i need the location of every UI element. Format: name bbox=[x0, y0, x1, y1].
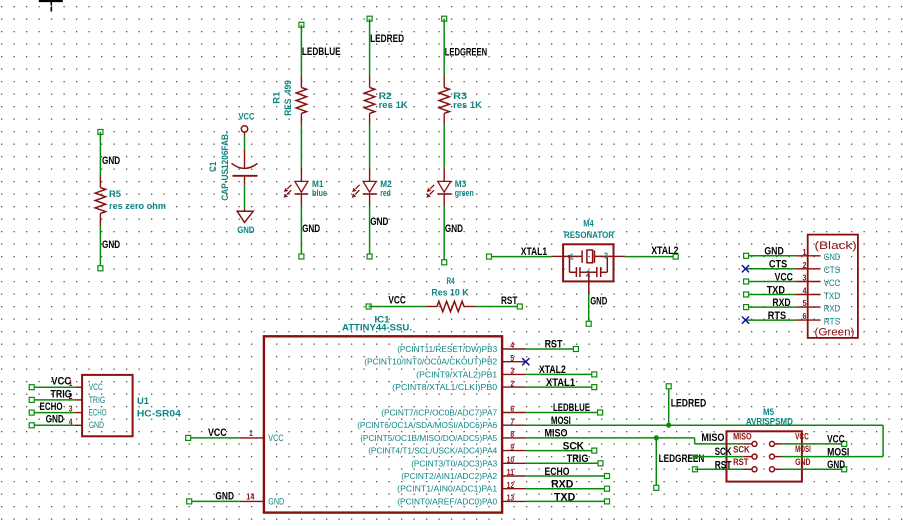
svg-text:LEDGREEN: LEDGREEN bbox=[445, 47, 487, 59]
svg-text:RTS: RTS bbox=[824, 317, 841, 327]
svg-text:VCC: VCC bbox=[795, 432, 809, 442]
svg-text:blue: blue bbox=[312, 188, 327, 198]
svg-text:res zero ohm: res zero ohm bbox=[109, 201, 166, 211]
svg-text:3: 3 bbox=[803, 273, 807, 283]
svg-text:8: 8 bbox=[510, 429, 514, 439]
svg-text:GND: GND bbox=[46, 414, 64, 426]
svg-text:R4: R4 bbox=[447, 276, 456, 286]
svg-text:RST: RST bbox=[501, 295, 518, 307]
svg-text:(Green): (Green) bbox=[815, 327, 855, 339]
svg-text:ATTINY44-SSU.: ATTINY44-SSU. bbox=[342, 323, 412, 333]
svg-text:ECHO: ECHO bbox=[545, 466, 570, 478]
svg-text:(PCINT4/T1/SCL/USCK/ADC4)PA4: (PCINT4/T1/SCL/USCK/ADC4)PA4 bbox=[368, 446, 497, 456]
svg-text:XTAL1: XTAL1 bbox=[521, 246, 547, 258]
svg-text:GND: GND bbox=[268, 497, 284, 507]
svg-text:VCC: VCC bbox=[89, 382, 103, 392]
svg-text:2: 2 bbox=[510, 378, 514, 388]
svg-text:VCC: VCC bbox=[239, 112, 255, 122]
svg-text:TXD: TXD bbox=[767, 284, 786, 296]
svg-text:res 1K: res 1K bbox=[379, 100, 408, 110]
svg-text:7: 7 bbox=[510, 416, 514, 426]
svg-text:GND: GND bbox=[827, 459, 845, 471]
svg-text:RES .499: RES .499 bbox=[283, 80, 293, 116]
svg-text:Res 10 K: Res 10 K bbox=[431, 288, 468, 298]
svg-text:ECHO: ECHO bbox=[89, 408, 107, 418]
svg-text:VCC: VCC bbox=[208, 427, 227, 439]
svg-text:VCC: VCC bbox=[51, 376, 71, 388]
svg-text:3: 3 bbox=[510, 366, 514, 376]
svg-text:(PCINT5/OC1B/MISO/DO/ADC5)PA5: (PCINT5/OC1B/MISO/DO/ADC5)PA5 bbox=[360, 433, 497, 443]
svg-text:4: 4 bbox=[69, 416, 73, 426]
svg-text:14: 14 bbox=[246, 492, 255, 502]
svg-text:R1: R1 bbox=[272, 92, 282, 104]
svg-text:SCK: SCK bbox=[715, 446, 732, 458]
svg-text:(Black): (Black) bbox=[815, 240, 857, 252]
svg-text:U1: U1 bbox=[137, 396, 149, 406]
svg-text:red: red bbox=[380, 188, 391, 198]
svg-text:MOSI: MOSI bbox=[795, 444, 811, 454]
svg-text:6: 6 bbox=[510, 404, 514, 414]
svg-text:MISO: MISO bbox=[733, 432, 752, 442]
svg-text:RTS: RTS bbox=[768, 310, 786, 322]
svg-text:1: 1 bbox=[570, 253, 574, 262]
svg-text:2: 2 bbox=[803, 260, 807, 270]
svg-text:RST: RST bbox=[545, 339, 563, 351]
svg-text:(PCINT9/XTAL2)PB1: (PCINT9/XTAL2)PB1 bbox=[416, 369, 497, 379]
svg-text:3: 3 bbox=[604, 252, 608, 261]
svg-text:(PCINT1/AIN0/ADC1)PA1: (PCINT1/AIN0/ADC1)PA1 bbox=[397, 484, 497, 494]
svg-text:TXD: TXD bbox=[554, 492, 576, 504]
svg-text:LEDRED: LEDRED bbox=[370, 33, 404, 45]
svg-text:SCK: SCK bbox=[733, 444, 750, 454]
svg-text:1: 1 bbox=[803, 247, 807, 257]
svg-text:11: 11 bbox=[507, 467, 515, 477]
svg-text:(PCINT0/AREF/ADC0)PA0: (PCINT0/AREF/ADC0)PA0 bbox=[397, 496, 497, 506]
svg-text:RXD: RXD bbox=[824, 304, 841, 314]
svg-text:VCC: VCC bbox=[827, 434, 845, 446]
svg-text:RST: RST bbox=[715, 460, 732, 472]
svg-text:VCC: VCC bbox=[775, 271, 794, 283]
svg-text:5: 5 bbox=[510, 353, 514, 363]
svg-text:MISO: MISO bbox=[701, 432, 724, 444]
svg-text:6: 6 bbox=[803, 311, 807, 321]
svg-text:RXD: RXD bbox=[551, 479, 574, 491]
svg-text:ECHO: ECHO bbox=[40, 401, 63, 413]
svg-text:VCC: VCC bbox=[388, 295, 406, 307]
svg-text:GND: GND bbox=[764, 246, 784, 258]
svg-text:res 1K: res 1K bbox=[453, 100, 482, 110]
svg-text:VCC: VCC bbox=[268, 433, 284, 443]
svg-text:XTAL1: XTAL1 bbox=[546, 377, 575, 389]
svg-text:green: green bbox=[455, 188, 474, 198]
svg-text:4: 4 bbox=[803, 286, 807, 296]
svg-text:AVRISPSMD: AVRISPSMD bbox=[746, 416, 793, 426]
svg-text:CTS: CTS bbox=[769, 259, 787, 271]
svg-text:(PCINT8/XTAL1/CLKI)PB0: (PCINT8/XTAL1/CLKI)PB0 bbox=[392, 382, 497, 392]
svg-text:GND: GND bbox=[370, 216, 388, 228]
svg-text:CAP-US1206FAB.: CAP-US1206FAB. bbox=[220, 132, 230, 201]
svg-text:LEDGREEN: LEDGREEN bbox=[659, 453, 705, 465]
svg-text:XTAL2: XTAL2 bbox=[651, 245, 678, 257]
svg-text:SCK: SCK bbox=[563, 440, 585, 452]
svg-text:MOSI: MOSI bbox=[551, 415, 571, 427]
svg-text:RST: RST bbox=[733, 457, 749, 467]
svg-text:12: 12 bbox=[507, 480, 515, 490]
svg-text:GND: GND bbox=[102, 155, 120, 167]
svg-text:CTS: CTS bbox=[824, 265, 841, 275]
svg-text:GND: GND bbox=[302, 223, 320, 235]
svg-text:GND: GND bbox=[237, 225, 255, 235]
svg-text:GND: GND bbox=[824, 252, 841, 262]
svg-text:VCC: VCC bbox=[824, 278, 841, 288]
svg-text:(PCINT6/OC1A/SDA/MOSI/ADC6)PA6: (PCINT6/OC1A/SDA/MOSI/ADC6)PA6 bbox=[357, 420, 497, 430]
svg-text:GND: GND bbox=[795, 457, 811, 467]
svg-text:9: 9 bbox=[510, 442, 514, 452]
svg-text:LEDRED: LEDRED bbox=[671, 397, 707, 409]
svg-text:(PCINT7/ICP/OC0B/ADC7)PA7: (PCINT7/ICP/OC0B/ADC7)PA7 bbox=[381, 408, 497, 418]
svg-text:R5: R5 bbox=[109, 189, 121, 199]
svg-text:RESONATOR: RESONATOR bbox=[564, 230, 614, 240]
svg-text:GND: GND bbox=[590, 295, 607, 307]
svg-text:C1: C1 bbox=[208, 162, 218, 172]
svg-text:3: 3 bbox=[69, 404, 73, 414]
svg-text:5: 5 bbox=[803, 298, 807, 308]
svg-text:(PCINT3/T0/ADC3)PA3: (PCINT3/T0/ADC3)PA3 bbox=[411, 458, 497, 468]
svg-text:(PCINT10/INT0/OC0A/CKOUT)PB2: (PCINT10/INT0/OC0A/CKOUT)PB2 bbox=[364, 357, 497, 367]
svg-text:LEDBLUE: LEDBLUE bbox=[553, 402, 590, 414]
svg-text:GND: GND bbox=[445, 223, 463, 235]
svg-text:GND: GND bbox=[215, 491, 234, 503]
svg-text:1: 1 bbox=[249, 428, 253, 438]
svg-text:HC-SR04: HC-SR04 bbox=[137, 408, 182, 418]
svg-text:TRIG: TRIG bbox=[51, 388, 72, 400]
svg-text:RXD: RXD bbox=[772, 297, 790, 309]
svg-text:(PCINT2/AIN1/ADC2)PA2: (PCINT2/AIN1/ADC2)PA2 bbox=[401, 471, 497, 481]
svg-text:MOSI: MOSI bbox=[827, 446, 849, 458]
svg-text:GND: GND bbox=[89, 420, 105, 430]
svg-text:GND: GND bbox=[102, 239, 120, 251]
svg-text:MISO: MISO bbox=[545, 428, 568, 440]
svg-text:4: 4 bbox=[510, 340, 514, 350]
svg-text:(PCINT11/RESET/DW)PB3: (PCINT11/RESET/DW)PB3 bbox=[397, 344, 497, 354]
svg-text:13: 13 bbox=[507, 493, 515, 503]
svg-text:TRIG: TRIG bbox=[89, 395, 106, 405]
svg-text:TXD: TXD bbox=[824, 291, 841, 301]
svg-text:XTAL2: XTAL2 bbox=[539, 364, 566, 376]
svg-text:10: 10 bbox=[507, 455, 515, 465]
svg-text:TRIG: TRIG bbox=[567, 453, 589, 465]
svg-text:M4: M4 bbox=[583, 218, 594, 228]
svg-text:LEDBLUE: LEDBLUE bbox=[302, 46, 341, 58]
